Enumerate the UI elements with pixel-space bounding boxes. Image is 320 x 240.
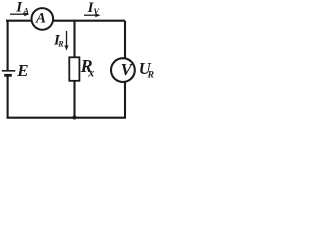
- svg-text:x: x: [87, 65, 94, 79]
- svg-text:R: R: [147, 71, 154, 81]
- svg-text:I: I: [15, 0, 23, 16]
- svg-text:A: A: [35, 10, 46, 26]
- svg-text:E: E: [16, 61, 28, 80]
- svg-text:V: V: [121, 60, 134, 79]
- svg-text:R: R: [57, 39, 64, 48]
